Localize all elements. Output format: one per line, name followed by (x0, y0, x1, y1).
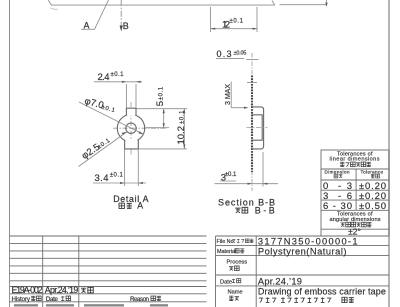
svg-text:Detail A: Detail A (113, 194, 148, 204)
tape section hatched (251, 76, 253, 173)
svg-text:B: B (123, 21, 129, 31)
mask bottom tab (125, 140, 137, 149)
svg-text:Dimension: Dimension (325, 169, 350, 174)
svg-text:Process: Process (227, 260, 248, 266)
dim 12±0.1 (210, 7, 212, 32)
dim 3.4±0.1 (124, 150, 126, 187)
svg-text:2.4: 2.4 (98, 72, 110, 83)
mask top tab (127, 107, 135, 115)
svg-text:B-B: B-B (255, 205, 275, 215)
dim 10.2±0.1 (183, 109, 185, 149)
page border left (9, 0, 11, 307)
svg-text:A: A (137, 201, 143, 211)
hole circle phi2.5 (126, 123, 136, 133)
dim 3±0.1 bottom (262, 152, 264, 187)
svg-text:5: 5 (155, 101, 166, 106)
svg-text:History: History (12, 296, 31, 303)
svg-text:3 MAX: 3 MAX (225, 84, 232, 105)
wire top right dim tail (280, 4, 328, 6)
svg-text:±0.05: ±0.05 (234, 51, 247, 57)
svg-text:Section B-B: Section B-B (218, 197, 275, 207)
partial bottom row (14, 304, 38, 306)
svg-text:3177N350-00000-1: 3177N350-00000-1 (258, 236, 358, 246)
centerline vertical (130, 102, 132, 155)
leader phi2.5 (79, 132, 127, 167)
svg-text:10.2: 10.2 (176, 126, 187, 145)
dim 5±0.1 (137, 108, 188, 110)
svg-text:Name: Name (228, 289, 243, 295)
svg-text:±0.1: ±0.1 (159, 86, 165, 100)
leader 3 MAX (230, 82, 232, 108)
pocket circle phi7 (117, 115, 144, 142)
wire left cut edge (48, 0, 51, 5)
svg-text:±0.1: ±0.1 (111, 72, 125, 78)
wire tape bottom edge (51, 4, 274, 6)
svg-text:±0.1: ±0.1 (230, 19, 244, 25)
arrow top right down (326, 0, 328, 6)
svg-text:±0.1: ±0.1 (179, 110, 185, 124)
svg-text:Tolerance: Tolerance (361, 169, 384, 174)
svg-text:0.3: 0.3 (217, 49, 232, 59)
pocket inner lines (252, 115, 262, 140)
svg-text:E19A-002: E19A-002 (12, 285, 43, 295)
faint hole arc (51, 8, 58, 9)
section line B (120, 0, 122, 27)
pocket outline outer (252, 107, 264, 149)
leader phi7.0 (79, 102, 143, 134)
tape top tick (247, 82, 257, 84)
centerline (251, 53, 253, 191)
svg-text:Apr.24.’19: Apr.24.’19 (45, 285, 79, 295)
centerline horizontal (113, 127, 167, 129)
page border right (388, 0, 390, 307)
top tab outline (126, 108, 136, 115)
svg-text:Polystyren(Natural): Polystyren(Natural) (258, 246, 347, 256)
svg-text:3.4: 3.4 (95, 173, 109, 184)
svg-text:Reason: Reason (130, 296, 150, 303)
svg-text:Date: Date (220, 279, 232, 285)
svg-text:Date: Date (46, 296, 59, 303)
wire A leader diagonal (95, 0, 109, 29)
svg-text:±0.1: ±0.1 (110, 172, 124, 178)
svg-text:±2°: ±2° (348, 226, 361, 236)
svg-text:File No.: File No. (217, 239, 236, 245)
svg-text:Drawing of emboss carrier tape: Drawing of emboss carrier tape (258, 287, 386, 297)
wire break diagonal (272, 1, 275, 6)
pocket centerline (247, 126, 268, 128)
dim 2.4±0.1 (125, 84, 127, 108)
svg-text:Apr.24.’19: Apr.24.’19 (258, 276, 302, 286)
bottom tab outline (125, 140, 139, 149)
svg-text:±0.1: ±0.1 (225, 172, 237, 178)
svg-text:Material: Material (217, 249, 236, 255)
